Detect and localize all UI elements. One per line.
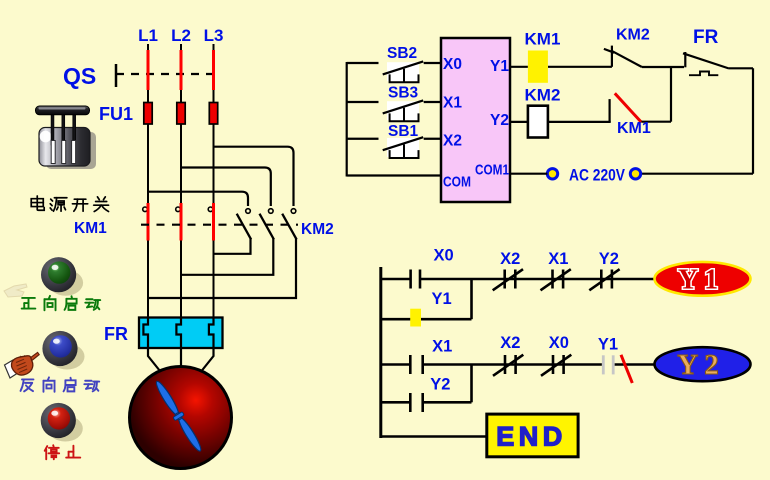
svg-text:Y2: Y2 xyxy=(599,250,619,268)
svg-text:END: END xyxy=(496,422,567,452)
svg-text:SB2: SB2 xyxy=(387,45,417,62)
svg-text:SB3: SB3 xyxy=(388,85,419,102)
svg-text:Y2: Y2 xyxy=(490,112,509,129)
svg-text:X2: X2 xyxy=(443,133,462,150)
svg-text:COM: COM xyxy=(443,174,471,191)
svg-text:KM1: KM1 xyxy=(74,220,107,237)
svg-text:Y2: Y2 xyxy=(430,376,450,394)
svg-text:L2: L2 xyxy=(171,26,191,45)
svg-text:KM1: KM1 xyxy=(617,120,651,137)
svg-text:KM2: KM2 xyxy=(616,27,650,44)
svg-text:L3: L3 xyxy=(204,26,224,45)
svg-text:KM2: KM2 xyxy=(301,221,334,238)
svg-text:Y2: Y2 xyxy=(677,349,724,381)
svg-text:X0: X0 xyxy=(549,334,569,352)
svg-text:X0: X0 xyxy=(434,247,454,265)
svg-text:X0: X0 xyxy=(443,56,462,73)
svg-text:X1: X1 xyxy=(432,338,452,356)
svg-text:SB1: SB1 xyxy=(388,123,419,140)
svg-text:COM1: COM1 xyxy=(475,162,509,179)
svg-text:KM2: KM2 xyxy=(525,86,561,105)
svg-text:FR: FR xyxy=(104,324,128,344)
svg-text:FR: FR xyxy=(693,27,719,48)
svg-text:Y1: Y1 xyxy=(432,290,452,308)
svg-text:X1: X1 xyxy=(443,95,462,112)
svg-text:Y1: Y1 xyxy=(490,58,509,75)
svg-text:FU1: FU1 xyxy=(99,104,133,124)
svg-text:X2: X2 xyxy=(500,250,520,268)
svg-text:Y1: Y1 xyxy=(678,265,724,296)
svg-text:X2: X2 xyxy=(500,334,520,352)
svg-text:Y1: Y1 xyxy=(598,336,618,354)
svg-text:KM1: KM1 xyxy=(525,30,561,49)
svg-text:AC 220V: AC 220V xyxy=(569,165,626,184)
svg-text:QS: QS xyxy=(63,63,96,89)
svg-text:X1: X1 xyxy=(548,250,568,268)
svg-text:L1: L1 xyxy=(138,26,158,45)
